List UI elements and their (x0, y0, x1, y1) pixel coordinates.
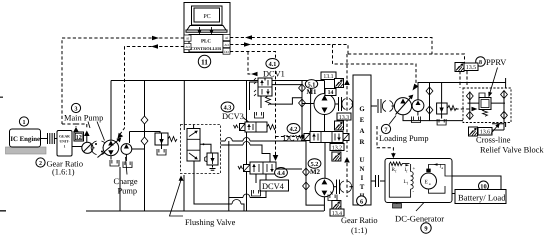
svg-text:11: 11 (201, 57, 208, 66)
svg-text:8: 8 (479, 60, 482, 66)
svg-text:13.2: 13.2 (332, 145, 342, 151)
svg-text:AI: AI (225, 36, 228, 40)
svg-text:9: 9 (424, 226, 427, 233)
svg-text:13.1: 13.1 (323, 74, 333, 80)
svg-text:1: 1 (64, 145, 66, 149)
svg-text:13.5: 13.5 (466, 65, 476, 71)
svg-text:CONTROLLER: CONTROLLER (191, 46, 222, 51)
svg-text:(1.6:1): (1.6:1) (52, 168, 75, 177)
svg-text:UNIT-: UNIT- (59, 140, 70, 144)
svg-text:DCV1: DCV1 (263, 70, 285, 79)
svg-text:(1:1): (1:1) (351, 226, 367, 235)
svg-text:Charge: Charge (114, 177, 138, 186)
svg-text:7: 7 (385, 128, 388, 134)
svg-text:N: N (360, 166, 365, 173)
svg-text:R: R (360, 139, 365, 146)
svg-text:M1: M1 (306, 88, 317, 96)
svg-text:4.3: 4.3 (224, 105, 232, 112)
svg-text:AO: AO (224, 43, 229, 47)
svg-text:1: 1 (23, 120, 26, 126)
svg-text:6: 6 (360, 198, 363, 205)
svg-text:3: 3 (75, 107, 78, 113)
svg-text:PPRV: PPRV (486, 58, 506, 67)
svg-text:DCV3: DCV3 (222, 112, 244, 121)
svg-text:Main Pump: Main Pump (64, 114, 103, 123)
svg-text:M2: M2 (310, 168, 321, 176)
svg-text:Gear Ratio: Gear Ratio (341, 216, 378, 225)
svg-text:4.2: 4.2 (290, 126, 298, 133)
svg-text:+: + (413, 167, 416, 172)
svg-text:T: T (360, 184, 365, 191)
svg-text:E: E (360, 117, 365, 124)
svg-text:A: A (360, 128, 365, 135)
svg-text:12: 12 (76, 135, 82, 141)
svg-text:14: 14 (328, 90, 334, 96)
svg-text:Loading Pump: Loading Pump (379, 134, 429, 143)
svg-text:DC-Generator: DC-Generator (395, 214, 444, 224)
svg-text:PC: PC (203, 14, 210, 20)
svg-text:U: U (360, 157, 365, 164)
svg-text:Battery/ Load: Battery/ Load (458, 193, 506, 203)
svg-text:13.3: 13.3 (339, 115, 349, 121)
svg-text:DO: DO (224, 50, 229, 54)
svg-text:G: G (359, 106, 365, 113)
svg-text:DCV4: DCV4 (262, 182, 285, 191)
svg-text:a: a (429, 181, 431, 186)
svg-text:PLC: PLC (201, 39, 211, 45)
svg-text:4.1: 4.1 (269, 61, 277, 68)
svg-text:4.4: 4.4 (277, 170, 285, 177)
svg-text:5.2: 5.2 (311, 161, 319, 168)
svg-text:AO: AO (185, 45, 190, 49)
svg-text:Flushing Valve: Flushing Valve (185, 218, 236, 227)
svg-text:2: 2 (39, 161, 42, 167)
svg-text:Relief Valve Block: Relief Valve Block (480, 146, 544, 155)
svg-text:AI: AI (186, 37, 189, 41)
svg-text:I: I (361, 175, 364, 182)
svg-text:IC Engine: IC Engine (10, 136, 40, 143)
svg-text:GEAR: GEAR (59, 135, 70, 139)
svg-text:Cross-line: Cross-line (476, 136, 511, 145)
